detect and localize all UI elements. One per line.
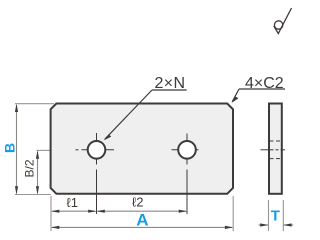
svg-text:ℓ1: ℓ1: [67, 195, 78, 210]
extension line: plate bottom edge to B dimension (gray): [15, 194, 51, 196]
side view hidden line top (hole edge): [270, 140, 281, 142]
arrowhead leader 2xN: [104, 134, 112, 140]
extension line: hole centerline to B/2 (gray): [37, 149, 51, 151]
extension line: plate left edge down to A dimension (gray): [50, 196, 52, 231]
hole 2 center mark horizontal: [172, 149, 199, 151]
arrowhead l2 right: [179, 210, 187, 213]
svg-text:T: T: [271, 208, 280, 225]
extension line: plate top edge to B dimension (gray): [15, 103, 54, 105]
arrowhead B/2 top: [36, 150, 39, 158]
arrowhead T left (pointing right): [260, 223, 268, 226]
extension line side view left (gray): [268, 200, 270, 231]
surface finish symbol (circle-in-V with tail), top right: [274, 8, 292, 34]
hole 2: [178, 141, 196, 159]
svg-text:4×C2: 4×C2: [245, 75, 284, 92]
dimension line l2 (hole 1 to hole 2): [98, 210, 187, 212]
dimension T line left tail: [259, 224, 269, 226]
arrowhead leader 4xC2: [232, 97, 239, 103]
arrowhead l2 left: [97, 210, 105, 213]
side view center line (chain): [261, 149, 286, 151]
hole 1: [88, 141, 106, 159]
arrowhead B/2 bottom: [36, 186, 39, 194]
dimension T line right tail: [284, 224, 294, 226]
dimension line B (vertical, left): [16, 105, 18, 194]
svg-text:ℓ2: ℓ2: [132, 195, 143, 210]
hole 1 center mark horizontal (chain line): [76, 149, 115, 151]
extension line side view right (gray): [282, 200, 284, 231]
dimension line l1 (left edge to hole 1): [52, 210, 96, 212]
arrowhead B top: [15, 104, 18, 112]
svg-text:2×N: 2×N: [155, 75, 186, 92]
dimension line A (full width): [52, 226, 232, 228]
extension line: plate right edge down to A dimension (gray): [232, 196, 234, 231]
side view plate (right): [269, 104, 282, 194]
arrowhead l1 right: [88, 210, 96, 213]
leader 4xC2: underline and diagonal to top right chamfer: [232, 89, 285, 102]
hole 2 center mark vertical: [186, 134, 188, 215]
dimension line B/2 (vertical): [37, 152, 39, 194]
svg-text:B: B: [2, 143, 18, 153]
svg-text:B/2: B/2: [23, 159, 37, 177]
plate outline (front view, chamfered corners): [51, 104, 233, 194]
side view hidden line bottom (hole edge): [270, 158, 281, 160]
arrowhead B bottom: [15, 186, 18, 194]
arrowhead T right (pointing left): [283, 223, 291, 226]
arrowhead A left: [51, 226, 59, 229]
leader 2xN: underline and diagonal to hole 1: [105, 90, 187, 139]
arrowhead A right: [225, 226, 233, 229]
arrowhead l1 left: [51, 210, 59, 213]
svg-text:A: A: [136, 211, 148, 230]
hole 1 center mark vertical (chain line, extends to dims): [96, 133, 98, 214]
